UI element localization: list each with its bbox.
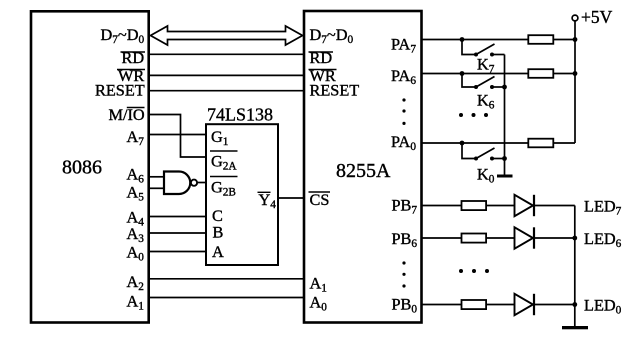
- wire switch common rail: [504, 55, 506, 176]
- svg-text:A2: A2: [127, 272, 145, 293]
- 8086 pin M/IO label: [109, 105, 145, 124]
- wire M/IO to G2A: [149, 115, 206, 158]
- IC 8255A box: [304, 11, 422, 323]
- switch K7 label: [477, 55, 495, 76]
- 8255A pin PA6 label: [391, 66, 416, 87]
- LED diode D0 on PB0 row: [515, 294, 535, 315]
- ellipsis dots between PB6 and PB0: [402, 261, 405, 287]
- 8086 pin D7~D0 label: [101, 25, 145, 46]
- resistor R7 on PA7 row: [528, 35, 553, 44]
- 8255A pin D7~D0 label: [310, 25, 354, 46]
- 74LS138 pin G2B label: [210, 177, 238, 199]
- wire Y4 to CS: [278, 197, 304, 199]
- svg-text:A5: A5: [127, 183, 145, 204]
- wire A0 to A: [149, 251, 206, 253]
- 74LS138 pin Y4 label: [258, 190, 277, 211]
- 74LS138 pin G1 label: [211, 127, 228, 148]
- decoder 74LS138 box: [206, 124, 278, 265]
- 8255A pin CS label: [309, 190, 331, 209]
- svg-text:K6: K6: [477, 91, 495, 112]
- 8086 pin A1 label: [127, 292, 144, 313]
- switch K6: [462, 74, 505, 90]
- 8255A pin RD label: [309, 48, 334, 67]
- 8086 pin RESET label: [95, 81, 145, 100]
- node junction LED0 on rail: [572, 302, 577, 307]
- wire PB6 row: [422, 237, 575, 239]
- 8086 pin A7 label: [127, 127, 145, 148]
- 8086 pin A5 label: [127, 183, 145, 204]
- svg-text:+5V: +5V: [581, 7, 613, 27]
- node junction K0 on switch rail: [502, 156, 507, 161]
- ground for switches: [497, 175, 513, 178]
- IC 8255A name label: [336, 160, 391, 182]
- svg-text:8086: 8086: [62, 157, 102, 179]
- svg-text:PA0: PA0: [391, 132, 416, 153]
- svg-text:A: A: [212, 242, 224, 261]
- wire PA6 row: [422, 73, 576, 75]
- 8255A pin PB0 label: [392, 295, 418, 316]
- wire WR: [149, 74, 304, 76]
- svg-text:D7~D0: D7~D0: [310, 25, 354, 46]
- resistor on PB6 row: [462, 234, 487, 243]
- 8086 pin A3 label: [127, 224, 145, 245]
- svg-text:8255A: 8255A: [336, 160, 391, 182]
- 8086 pin RD label: [121, 48, 146, 67]
- resistor on PB0 row: [462, 300, 487, 309]
- ellipsis dots between PB6 and PB0 rows: [459, 269, 489, 273]
- wire RD: [149, 53, 304, 55]
- svg-text:A1: A1: [127, 292, 144, 313]
- 8086 pin WR label: [117, 66, 145, 85]
- decoder 74LS138 name label: [207, 105, 273, 125]
- 8255A pin WR label: [309, 66, 337, 85]
- node junction on PA7 wire: [460, 37, 465, 42]
- switch K0 label: [477, 165, 495, 186]
- svg-text:K7: K7: [477, 55, 495, 76]
- svg-text:G2A: G2A: [211, 152, 237, 173]
- LED6 label: [584, 229, 622, 250]
- data bus double arrow D7~D0: [151, 26, 303, 45]
- 8086 pin A4 label: [127, 208, 145, 229]
- svg-text:74LS138: 74LS138: [207, 105, 273, 125]
- 8255A pin PA0 label: [391, 132, 416, 153]
- LED diode D6 on PB6 row: [515, 227, 535, 248]
- 8255A pin A0 label: [310, 293, 328, 314]
- node junction K6 on switch rail: [502, 85, 507, 90]
- node junction on PA0 wire: [460, 141, 465, 146]
- +5V label: [581, 7, 613, 27]
- LED0 label: [584, 296, 622, 317]
- wire PB0 row: [422, 304, 575, 306]
- wire NAND output to G2B: [197, 182, 206, 184]
- svg-text:A1: A1: [310, 274, 327, 295]
- svg-text:G1: G1: [211, 127, 228, 148]
- switch K0: [462, 143, 505, 161]
- wire A4 to C: [149, 216, 206, 218]
- wire A7 to G1: [149, 134, 206, 136]
- wire PA0 row: [422, 142, 576, 144]
- svg-text:PB7: PB7: [392, 196, 418, 217]
- 8255A pin A1 label: [310, 274, 327, 295]
- LED7 label: [584, 197, 622, 218]
- svg-text:LED6: LED6: [584, 229, 622, 250]
- IC 8086 name label: [62, 157, 102, 179]
- svg-text:A0: A0: [127, 243, 145, 264]
- wire +5V rail: [574, 21, 576, 143]
- switch K7: [462, 40, 505, 57]
- 74LS138 pin G2A label: [210, 151, 238, 173]
- wire PB7 row: [422, 205, 575, 207]
- svg-text:LED0: LED0: [584, 296, 622, 317]
- svg-text:PA6: PA6: [391, 66, 416, 87]
- svg-text:RD: RD: [310, 48, 333, 67]
- wire A3 to B: [149, 232, 206, 234]
- svg-text:G2B: G2B: [211, 178, 236, 199]
- +5V terminal: [572, 15, 578, 21]
- 8255A pin PA7 label: [391, 35, 416, 56]
- svg-text:A7: A7: [127, 127, 145, 148]
- 8255A pin PB6 label: [392, 229, 418, 250]
- svg-text:PA7: PA7: [391, 35, 416, 56]
- 74LS138 pin B label: [213, 223, 224, 242]
- resistor R0 on PA0 row: [528, 139, 553, 148]
- wire A2 to 8255A A1: [149, 278, 304, 280]
- 8255A pin RESET label: [310, 81, 360, 100]
- ground for LED rail: [562, 326, 588, 329]
- LED diode D7 on PB7 row: [515, 195, 535, 216]
- wire PA7 row: [422, 39, 576, 41]
- svg-text:LED7: LED7: [584, 197, 622, 218]
- resistor R6 on PA6 row: [528, 69, 553, 78]
- wire LED common rail: [574, 206, 576, 327]
- 8086 pin A6 label: [127, 165, 145, 186]
- NAND gate U2: [164, 172, 197, 195]
- resistor on PB7 row: [462, 201, 487, 210]
- 8086 pin A0 label: [127, 243, 145, 264]
- wire A6 to NAND: [149, 176, 165, 178]
- svg-text:PB6: PB6: [392, 229, 418, 250]
- svg-text:CS: CS: [310, 190, 330, 209]
- wire A1 to 8255A A0: [149, 297, 304, 299]
- 74LS138 pin C label: [212, 206, 223, 225]
- svg-text:A0: A0: [310, 293, 328, 314]
- IC 8086 box: [31, 11, 149, 322]
- node junction PA7 resistor to +5V rail: [573, 37, 578, 42]
- node junction LED6 on rail: [572, 236, 577, 241]
- svg-text:RESET: RESET: [95, 81, 145, 100]
- svg-text:K0: K0: [477, 165, 495, 186]
- svg-text:RD: RD: [122, 48, 145, 67]
- svg-text:Y4: Y4: [259, 190, 277, 211]
- ellipsis dots between K6 and K0: [459, 113, 488, 117]
- svg-text:RESET: RESET: [310, 81, 360, 100]
- switch K6 label: [477, 91, 495, 112]
- svg-text:D7~D0: D7~D0: [101, 25, 145, 46]
- ellipsis dots between PA6 and PA0: [402, 98, 405, 125]
- 8255A pin PB7 label: [392, 196, 418, 217]
- 8086 pin A2 label: [127, 272, 145, 293]
- 74LS138 pin A label: [212, 242, 224, 261]
- node junction PA6 resistor to +5V rail: [573, 71, 578, 76]
- svg-text:B: B: [213, 223, 224, 242]
- wire A5 to NAND: [149, 187, 165, 189]
- wire RESET: [149, 90, 304, 92]
- svg-text:PB0: PB0: [392, 295, 418, 316]
- node junction on PA6 wire: [460, 71, 465, 76]
